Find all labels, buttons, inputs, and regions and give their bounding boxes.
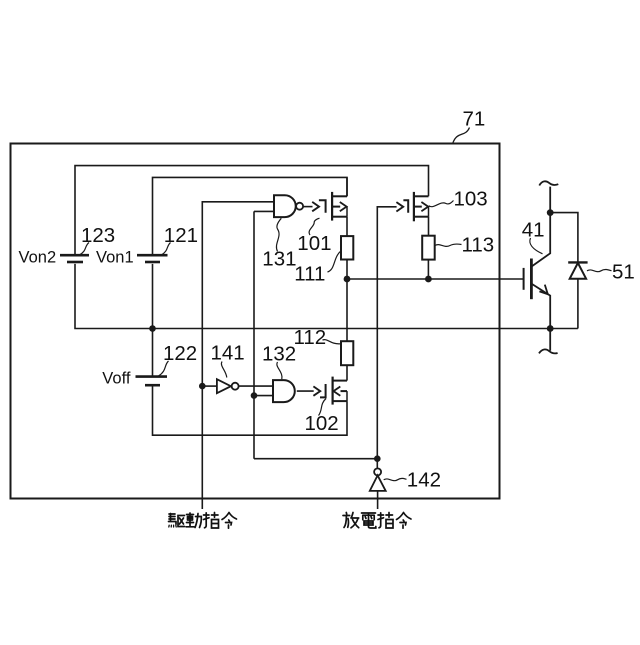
break symbol top <box>539 181 558 185</box>
rail Von1+ <box>153 177 348 255</box>
leader 141 <box>221 362 226 378</box>
node gate line / R111-R112 <box>344 276 351 283</box>
wire discharge horizontal <box>254 458 377 460</box>
wire 101 source to R111 <box>346 217 348 236</box>
svg-text:113: 113 <box>462 233 495 256</box>
kanji 駆 <box>169 514 185 528</box>
svg-text:111: 111 <box>294 262 325 285</box>
resistor 111 <box>341 236 353 259</box>
inverter 141 <box>217 379 231 393</box>
svg-text:71: 71 <box>463 108 486 131</box>
svg-text:131: 131 <box>262 248 296 271</box>
wire drive command vertical <box>202 202 274 509</box>
svg-text:101: 101 <box>297 232 331 255</box>
wire diode anode down <box>577 279 579 329</box>
svg-text:51: 51 <box>612 261 635 284</box>
MOSFET 101 <box>319 192 347 221</box>
svg-text:121: 121 <box>164 224 198 247</box>
IGBT 41 gate wire <box>523 268 525 290</box>
wire Voff bottom to 102 source <box>153 387 348 436</box>
leader 112 <box>323 340 341 344</box>
leader 122 <box>159 361 169 376</box>
leader 113 <box>435 244 462 246</box>
wire discharge vertical to 103 gate <box>377 207 396 459</box>
leader 41 <box>530 238 543 254</box>
wire discharge terminal lead <box>377 491 379 509</box>
svg-text:142: 142 <box>407 469 441 492</box>
svg-text:123: 123 <box>81 224 115 247</box>
svg-text:103: 103 <box>454 188 488 211</box>
svg-text:Von1: Von1 <box>96 248 134 266</box>
junction drive/inverter-141 input <box>199 383 206 390</box>
wire R113 to node <box>427 260 429 279</box>
leader 111 <box>328 251 342 272</box>
junction Von1/mid-rail <box>149 325 156 332</box>
resistor 113 <box>422 236 435 260</box>
wire Von1 bottom <box>152 264 154 329</box>
wire NAND output arrow <box>303 206 312 208</box>
rail Von2+ (top) <box>75 166 429 256</box>
kanji 令 <box>222 513 237 529</box>
break symbol bottom <box>539 349 558 353</box>
wire R111 to node <box>346 260 348 280</box>
junction AND-132 input B <box>251 392 258 399</box>
IGBT 41 collector <box>531 187 550 267</box>
outer box (gate drive circuit 71) <box>11 144 500 499</box>
leader 102 <box>319 399 327 416</box>
wire AND output arrow <box>297 390 314 392</box>
leader 131 <box>276 218 281 251</box>
kanji label 放電指令 (discharge command) <box>343 513 411 529</box>
svg-text:102: 102 <box>305 412 339 435</box>
wire 101 drain up <box>346 177 348 196</box>
svg-text:Voff: Voff <box>102 370 131 388</box>
wire AND input B <box>254 395 273 397</box>
arrowhead at 103 gate <box>396 202 403 211</box>
wire gate line (node to IGBT gate) <box>347 278 524 280</box>
diode 51 <box>568 262 587 278</box>
leader 101 <box>309 218 319 235</box>
resistor 112 <box>341 341 353 365</box>
leader 142 <box>384 478 407 480</box>
leader 132 <box>277 362 282 379</box>
label leaders <box>79 201 612 481</box>
wire inverter 141 output to AND <box>239 385 273 387</box>
wire inverter 141 input <box>202 385 217 387</box>
svg-text:112: 112 <box>294 326 327 349</box>
kanji 電 <box>362 513 376 528</box>
MOSFET 103 <box>403 192 428 221</box>
battery 122 plates <box>136 377 168 386</box>
leader 51 <box>587 269 612 271</box>
wire NAND input B vertical <box>254 210 274 212</box>
svg-text:41: 41 <box>522 218 545 241</box>
svg-text:141: 141 <box>211 342 245 365</box>
svg-text:132: 132 <box>262 343 296 366</box>
wire 103 source to R113 <box>428 217 430 236</box>
MOSFET 102 <box>320 377 347 405</box>
leader 121 <box>161 243 171 256</box>
IGBT emitter arrowhead <box>539 285 547 295</box>
wire collector node to diode <box>550 213 578 263</box>
node discharge command <box>374 455 381 462</box>
kanji 指 <box>378 513 393 529</box>
node gate line / R113 <box>425 276 432 283</box>
leader 103 <box>429 201 454 207</box>
wire Voff top <box>152 329 154 376</box>
wire node to R112 <box>346 279 348 341</box>
IGBT 41 channel bar <box>530 259 533 300</box>
AND gate 132 <box>273 380 295 402</box>
label 71 leader <box>453 128 470 144</box>
node IGBT emitter <box>547 325 554 332</box>
NAND gate 131 <box>274 195 296 217</box>
kanji 指 <box>204 513 219 529</box>
battery 121 plates <box>137 255 168 262</box>
svg-text:122: 122 <box>163 342 197 365</box>
kanji 動 <box>186 513 201 528</box>
battery 123 plates <box>60 255 89 262</box>
wire R112 to 102 drain <box>346 365 348 380</box>
mid rail (common return) <box>75 264 578 329</box>
IGBT 41 emitter <box>531 284 550 351</box>
kanji 令 <box>397 513 412 529</box>
kanji label 駆動指令 (drive command) <box>169 513 237 529</box>
terminal inverter 142 <box>376 459 378 469</box>
node IGBT collector <box>547 209 554 216</box>
leader 123 <box>79 243 89 256</box>
kanji 放 <box>343 513 359 528</box>
svg-text:Von2: Von2 <box>19 248 57 266</box>
